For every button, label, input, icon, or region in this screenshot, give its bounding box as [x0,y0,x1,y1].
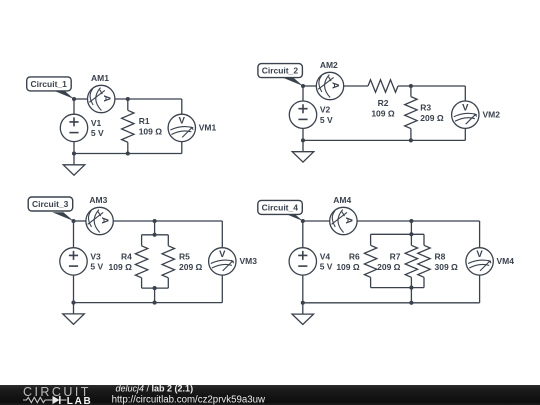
svg-text:V: V [462,102,469,113]
voltage source V2 5 V [289,101,316,128]
wire AM1 to R1/VM1 top rail [115,98,182,100]
svg-text:V1: V1 [91,118,102,128]
wire AM4 to parallel trio and VM4 [357,220,480,222]
bottom bar of parallel pair [142,287,169,289]
junction [409,84,413,88]
ground [63,154,85,176]
label V3 value [90,251,103,271]
resistor R7 209 ohm [405,234,417,287]
ammeter AM1 [88,85,115,112]
label R2 value [371,98,395,119]
svg-text:VM4: VM4 [497,256,515,266]
stem to parallel trio [410,221,412,234]
svg-text:VM1: VM1 [199,123,217,133]
junction [126,97,130,101]
bottom rail circuit 2 [303,139,465,141]
wire node C to V3 + [73,221,75,248]
junction [153,219,157,223]
label R4 value [109,252,133,273]
svg-text:Circuit_2: Circuit_2 [262,66,299,76]
wire top rail to VM1 [181,99,183,114]
stem to parallel pair [154,221,156,235]
node flag Circuit_3 [28,197,73,221]
ammeter AM2 [316,72,343,99]
wire node B to V2 + [302,86,304,101]
svg-text:R8: R8 [435,252,446,262]
svg-text:V: V [219,249,226,260]
wire node A to V1 + [73,99,75,114]
junction [126,151,130,155]
junction [153,286,157,290]
stem to bottom rail [410,288,412,303]
svg-text:V: V [476,249,483,260]
svg-text:5 V: 5 V [90,262,103,272]
wire node C to AM3 [74,220,86,222]
wire top rail to VM3 [221,221,223,248]
junction [409,301,413,305]
bottom bar of parallel trio [371,287,424,289]
wire V4 - to bottom rail [302,275,304,303]
resistor R2 109 ohm [368,80,398,92]
svg-text:R2: R2 [378,98,389,108]
svg-text:delucj4 / lab 2 (2.1): delucj4 / lab 2 (2.1) [116,384,194,394]
ground [292,140,314,162]
label R7 value [377,252,401,273]
voltmeter VM3 [209,248,236,275]
wire AM2 to R2 [344,85,368,87]
resistor R5 209 ohm [162,235,174,288]
svg-text:109 Ω: 109 Ω [371,108,395,118]
svg-text:109 Ω: 109 Ω [109,262,133,272]
CircuitLab logo [23,385,92,405]
wire V3 - to bottom rail [73,275,75,303]
label R1 value [139,116,163,137]
svg-text:AM3: AM3 [89,195,107,205]
voltage source V4 5 V [289,248,316,275]
svg-text:http://circuitlab.com/cz2prvk5: http://circuitlab.com/cz2prvk59a3uw [112,394,266,405]
junction [301,301,305,305]
svg-text:R1: R1 [139,116,150,126]
junction [409,286,413,290]
junction [301,219,305,223]
junction [72,151,76,155]
wire R2 to R3 node and VM2 [398,85,465,87]
svg-text:R5: R5 [179,252,190,262]
svg-text:V4: V4 [320,251,331,261]
label R5 value [179,252,203,273]
svg-text:109 Ω: 109 Ω [139,127,163,137]
top bar of parallel trio [371,233,424,235]
svg-text:LAB: LAB [67,396,93,405]
junction [409,219,413,223]
wire node D to V4 + [302,221,304,248]
svg-text:Circuit_1: Circuit_1 [31,79,68,89]
svg-text:V2: V2 [320,105,331,115]
bottom rail circuit 4 [303,302,480,304]
resistor R1 109 ohm [122,99,134,154]
svg-text:R7: R7 [390,252,401,262]
wire VM4 to bottom rail [479,275,481,303]
svg-text:R3: R3 [420,102,431,112]
node flag Circuit_4 [258,200,303,221]
svg-text:V: V [179,116,186,127]
svg-text:209 Ω: 209 Ω [420,113,444,123]
svg-text:Circuit_3: Circuit_3 [32,199,69,209]
wire node D to AM4 [303,220,330,222]
svg-text:VM2: VM2 [483,109,501,119]
svg-text:109 Ω: 109 Ω [336,262,360,272]
ammeter AM4 [330,207,357,234]
svg-text:5 V: 5 V [320,115,333,125]
svg-text:A: A [330,82,341,89]
junction [153,233,157,237]
svg-text:AM4: AM4 [333,195,351,205]
junction [71,301,75,305]
svg-text:A: A [99,217,110,224]
wire V1 - to bottom rail [73,142,75,154]
wire VM2 to bottom rail [464,128,466,140]
resistor R4 109 ohm [135,235,147,288]
svg-text:R4: R4 [121,252,132,262]
svg-text:5 V: 5 V [320,262,333,272]
node flag Circuit_1 [27,77,74,99]
resistor R3 209 ohm [405,86,417,140]
svg-text:AM1: AM1 [91,73,109,83]
top bar of parallel pair [142,234,169,236]
svg-text:V3: V3 [90,251,101,261]
voltage source V1 5 V [60,114,87,141]
wire V2 - to bottom rail [302,128,304,140]
wire top rail to VM2 [464,86,466,101]
wire VM1 to bottom rail [181,142,183,154]
wire node A to AM1 [74,98,88,100]
junction [153,301,157,305]
wire node B to AM2 [303,85,316,87]
stem to bottom rail [154,288,156,303]
svg-text:209 Ω: 209 Ω [179,262,203,272]
wire VM3 to bottom rail [221,275,223,303]
junction [301,138,305,142]
resistor R8 309 ohm [418,234,430,287]
label V4 value [320,251,333,271]
voltmeter VM1 [168,114,195,141]
label R3 value [420,102,444,123]
svg-text:R6: R6 [349,252,360,262]
svg-text:309 Ω: 309 Ω [435,262,459,272]
svg-text:VM3: VM3 [240,256,258,266]
voltmeter VM4 [466,248,493,275]
ground [63,303,85,325]
label R8 value [435,252,459,273]
wire AM3 to parallel pair and VM3 [113,220,222,222]
junction [301,84,305,88]
label R6 value [336,252,360,273]
junction [71,219,75,223]
ground [292,303,314,325]
node flag Circuit_2 [258,64,303,86]
ammeter AM3 [86,207,113,234]
svg-text:AM2: AM2 [320,60,338,70]
label V1 value [91,118,104,138]
svg-text:Circuit_4: Circuit_4 [262,202,299,212]
label V2 value [320,105,333,125]
svg-text:A: A [101,95,112,102]
wire top rail to VM4 [479,221,481,248]
svg-text:A: A [343,217,354,224]
resistor R6 109 ohm [364,234,376,287]
junction [409,232,413,236]
voltmeter VM2 [452,101,479,128]
bottom rail circuit 1 [74,153,182,155]
svg-text:209 Ω: 209 Ω [377,262,401,272]
junction [409,138,413,142]
bottom rail circuit 3 [74,302,223,304]
voltage source V3 5 V [60,248,87,275]
svg-text:5 V: 5 V [91,128,104,138]
junction [72,97,76,101]
